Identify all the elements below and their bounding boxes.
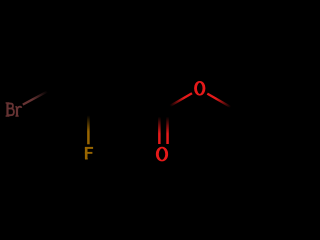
wire bond C1-C2 (ring, carbon, invisible) <box>89 89 126 110</box>
wire bond C4-C5 (ring, carbon, invisible) <box>52 25 89 46</box>
bond C2-F <box>87 110 90 144</box>
double bond C7=O line 2 <box>166 110 169 144</box>
wire bond C1-C7 (to carbonyl carbon, invisible) <box>126 89 163 110</box>
bond C7-O ester <box>163 93 192 110</box>
atom label Br <box>6 103 22 116</box>
wire bond C3-C4 (ring, carbon, invisible) <box>51 47 53 90</box>
double bond C7=O line 1 <box>158 110 161 144</box>
wire bond C8-C9 (ethyl terminal, invisible) <box>236 89 273 110</box>
wire bond C6-C1 (ring, carbon, invisible) <box>124 47 126 90</box>
bond Br-C3 <box>23 89 52 105</box>
atom label O carbonyl <box>157 148 166 161</box>
wire bond C2-C3 (ring, carbon, invisible) <box>52 89 89 110</box>
atom label O ester <box>196 82 204 95</box>
bond O ester-C8 <box>207 94 236 111</box>
wire bond C5-C6 (ring, carbon, invisible) <box>89 25 126 46</box>
atom label F <box>85 147 93 159</box>
